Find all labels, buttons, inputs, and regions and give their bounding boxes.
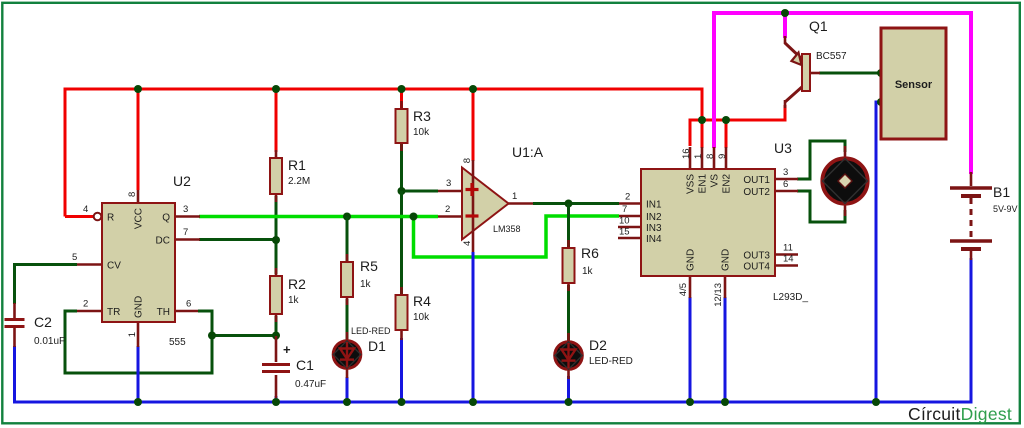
wire R3/R4 column bbox=[400, 191, 403, 295]
node Q line bypass tap bbox=[410, 213, 418, 221]
node R3/R4 tap bbox=[398, 187, 406, 195]
svg-text:CV: CV bbox=[107, 261, 121, 272]
svg-text:16: 16 bbox=[681, 148, 692, 159]
svg-text:8: 8 bbox=[705, 154, 716, 159]
wire R5 top tap bbox=[346, 217, 349, 263]
wire R6 bottom to D2 bbox=[567, 285, 570, 342]
svg-text:6: 6 bbox=[783, 179, 788, 190]
svg-text:0.01uF: 0.01uF bbox=[34, 336, 65, 347]
svg-text:IN3: IN3 bbox=[646, 223, 662, 234]
svg-text:B1: B1 bbox=[993, 184, 1010, 200]
wire bright green bypass to IN2 bbox=[414, 216, 620, 257]
svg-text:+: + bbox=[283, 342, 291, 357]
wire TR loop left bbox=[65, 311, 212, 373]
svg-text:IN4: IN4 bbox=[646, 234, 662, 245]
svg-text:LED-RED: LED-RED bbox=[589, 356, 633, 367]
wire Q output bright green bbox=[199, 215, 438, 219]
svg-text:U1:A: U1:A bbox=[512, 144, 544, 160]
svg-text:C1: C1 bbox=[296, 357, 314, 373]
svg-text:4: 4 bbox=[462, 241, 473, 246]
svg-text:R3: R3 bbox=[413, 108, 431, 124]
svg-text:U3: U3 bbox=[774, 140, 792, 156]
wire R2 bottom to C1 node bbox=[275, 316, 278, 340]
svg-text:4: 4 bbox=[83, 204, 88, 215]
svg-text:1k: 1k bbox=[360, 279, 372, 290]
wire R1 top drop bbox=[275, 89, 278, 152]
svg-text:8: 8 bbox=[127, 192, 138, 197]
wire 555 reset net bbox=[65, 215, 94, 218]
node ground rail junctions bbox=[134, 398, 880, 406]
motor driver U3 L293D bbox=[618, 140, 808, 307]
svg-text:Q1: Q1 bbox=[809, 18, 828, 34]
svg-text:GND: GND bbox=[134, 296, 145, 318]
svg-text:L293D_: L293D_ bbox=[773, 292, 808, 303]
svg-text:DC: DC bbox=[156, 236, 170, 247]
svg-text:VCC: VCC bbox=[134, 208, 145, 229]
svg-text:R1: R1 bbox=[288, 157, 306, 173]
svg-text:7: 7 bbox=[183, 227, 188, 238]
svg-text:OUT2: OUT2 bbox=[743, 187, 770, 198]
wire TH/TR node to R2 bottom bbox=[212, 334, 276, 337]
node Q line R5 tap bbox=[343, 213, 351, 221]
svg-text:VSS: VSS bbox=[686, 174, 697, 194]
svg-text:LM358: LM358 bbox=[493, 224, 521, 234]
wire magenta VS to battery bbox=[714, 13, 971, 174]
svg-text:15: 15 bbox=[619, 227, 630, 238]
svg-text:2: 2 bbox=[625, 192, 630, 203]
wire sensor to ground (blue) bbox=[876, 102, 881, 402]
node rail dots on VCC bbox=[134, 85, 730, 124]
wire EN2 drop bbox=[725, 120, 728, 148]
CircuitDigest logo bbox=[908, 404, 1012, 424]
node DC junction bbox=[272, 236, 280, 244]
svg-text:C2: C2 bbox=[34, 314, 52, 330]
wire DC to R1/R2 node (dark green) bbox=[199, 238, 276, 241]
svg-text:LED-RED: LED-RED bbox=[351, 326, 391, 336]
555 timer U2 bbox=[72, 173, 200, 348]
resistor R6 bbox=[563, 240, 600, 291]
svg-text:0.47uF: 0.47uF bbox=[295, 379, 326, 390]
svg-text:14: 14 bbox=[783, 254, 794, 265]
svg-text:1k: 1k bbox=[288, 295, 300, 306]
svg-text:EN1: EN1 bbox=[698, 174, 709, 194]
resistor R4 bbox=[396, 287, 432, 340]
capacitor C2 bbox=[5, 303, 66, 347]
wire R6 top drop bbox=[567, 204, 570, 249]
wire CV to C2 (dark green) bbox=[15, 265, 78, 305]
svg-text:5V-9V: 5V-9V bbox=[993, 204, 1018, 214]
wire R1 bottom to R2 top bbox=[275, 196, 278, 274]
svg-text:12/13: 12/13 bbox=[713, 283, 724, 307]
wire red rail to L293D/Q1 collector bbox=[690, 105, 785, 146]
battery B1 bbox=[950, 172, 1018, 260]
svg-text:5: 5 bbox=[72, 252, 77, 263]
svg-text:OUT3: OUT3 bbox=[743, 251, 770, 262]
LED D2 (LED-RED) bbox=[555, 333, 633, 379]
wire ground bottom rail (blue) bbox=[15, 258, 972, 402]
wire op-amp pin4 drop bbox=[472, 252, 475, 402]
wire magenta Q1 emitter branch bbox=[783, 13, 787, 38]
svg-text:1k: 1k bbox=[582, 266, 594, 277]
wire R3 top drop bbox=[400, 89, 403, 109]
node sensor base junction bbox=[877, 69, 885, 77]
node sensor blue junction bbox=[877, 98, 885, 106]
wire Q1 base to sensor bbox=[819, 72, 881, 75]
op-amp U1:A LM358 bbox=[438, 144, 544, 252]
svg-text:2.2M: 2.2M bbox=[288, 176, 310, 187]
svg-text:1: 1 bbox=[127, 332, 138, 337]
sensor module bbox=[881, 28, 946, 139]
svg-text:3: 3 bbox=[446, 178, 451, 189]
svg-text:R: R bbox=[107, 213, 114, 224]
wire EN1 drop bbox=[701, 120, 704, 148]
wire VCC top rail (red) bbox=[65, 89, 702, 217]
svg-text:4/5: 4/5 bbox=[678, 283, 689, 296]
svg-text:10k: 10k bbox=[413, 312, 430, 323]
resistor R2 bbox=[270, 268, 306, 322]
svg-text:R5: R5 bbox=[360, 258, 378, 274]
svg-text:1: 1 bbox=[512, 191, 517, 202]
svg-text:OUT1: OUT1 bbox=[743, 175, 770, 186]
svg-text:1: 1 bbox=[693, 154, 704, 159]
svg-text:TH: TH bbox=[157, 307, 170, 318]
svg-text:Sensor: Sensor bbox=[895, 79, 933, 91]
wire 555 VCC pin8 drop bbox=[137, 89, 140, 190]
wire D1 bottom drop bbox=[346, 377, 349, 402]
svg-text:D2: D2 bbox=[589, 337, 607, 353]
node R2/C1 junction bbox=[272, 332, 280, 340]
svg-text:IN2: IN2 bbox=[646, 212, 662, 223]
svg-text:8: 8 bbox=[462, 158, 473, 163]
svg-text:6: 6 bbox=[186, 299, 191, 310]
transistor Q1 BC557 bbox=[785, 18, 847, 108]
resistor R5 bbox=[341, 254, 378, 305]
wire R4 bottom drop bbox=[400, 338, 403, 402]
wire C1 bottom drop bbox=[275, 396, 278, 402]
svg-text:VS: VS bbox=[710, 174, 721, 188]
resistor R1 bbox=[270, 150, 310, 202]
LED D1 (LED-RED) bbox=[333, 326, 391, 378]
svg-text:10k: 10k bbox=[413, 127, 430, 138]
svg-text:U2: U2 bbox=[173, 173, 191, 189]
svg-text:11: 11 bbox=[783, 243, 793, 254]
svg-text:R6: R6 bbox=[581, 245, 599, 261]
svg-text:GND: GND bbox=[721, 249, 732, 271]
node output/R6 tap bbox=[565, 200, 573, 208]
wire R5 bottom to D1 bbox=[346, 299, 349, 341]
svg-text:2: 2 bbox=[83, 299, 88, 310]
svg-text:555: 555 bbox=[169, 337, 186, 348]
svg-text:OUT4: OUT4 bbox=[743, 262, 770, 273]
capacitor C1 bbox=[262, 336, 326, 398]
svg-text:7: 7 bbox=[622, 204, 627, 215]
svg-text:Q: Q bbox=[162, 213, 170, 224]
svg-text:EN2: EN2 bbox=[722, 174, 733, 194]
wire R3 bottom to op-amp pin3 bbox=[402, 143, 439, 191]
svg-text:9: 9 bbox=[717, 154, 728, 159]
svg-text:GND: GND bbox=[686, 249, 697, 271]
wire OUT2 to motor bottom (dark green) bbox=[797, 191, 845, 222]
wire OUT1 to motor top (dark green) bbox=[797, 141, 845, 179]
svg-text:10: 10 bbox=[619, 216, 630, 227]
svg-text:2: 2 bbox=[445, 204, 450, 215]
svg-text:3: 3 bbox=[183, 204, 188, 215]
svg-text:3: 3 bbox=[783, 167, 788, 178]
svg-text:R2: R2 bbox=[288, 276, 306, 292]
svg-text:R4: R4 bbox=[413, 293, 431, 309]
wire op-amp output to IN1 bbox=[533, 202, 619, 205]
resistor R3 bbox=[396, 101, 432, 151]
svg-text:IN1: IN1 bbox=[646, 200, 662, 211]
svg-text:CírcuitDigest: CírcuitDigest bbox=[908, 404, 1012, 424]
svg-text:TR: TR bbox=[107, 307, 120, 318]
svg-text:BC557: BC557 bbox=[816, 51, 847, 62]
wire 555 GND pin1 drop bbox=[137, 346, 140, 402]
svg-text:D1: D1 bbox=[368, 338, 386, 354]
motor bbox=[822, 146, 867, 216]
wire L293D GND drops bbox=[690, 297, 725, 402]
node VS/emitter junction bbox=[781, 9, 789, 17]
wire op-amp V+ pin8 drop bbox=[472, 89, 475, 161]
node TH loop junction bbox=[208, 332, 216, 340]
wire D2 bottom drop bbox=[567, 376, 570, 402]
